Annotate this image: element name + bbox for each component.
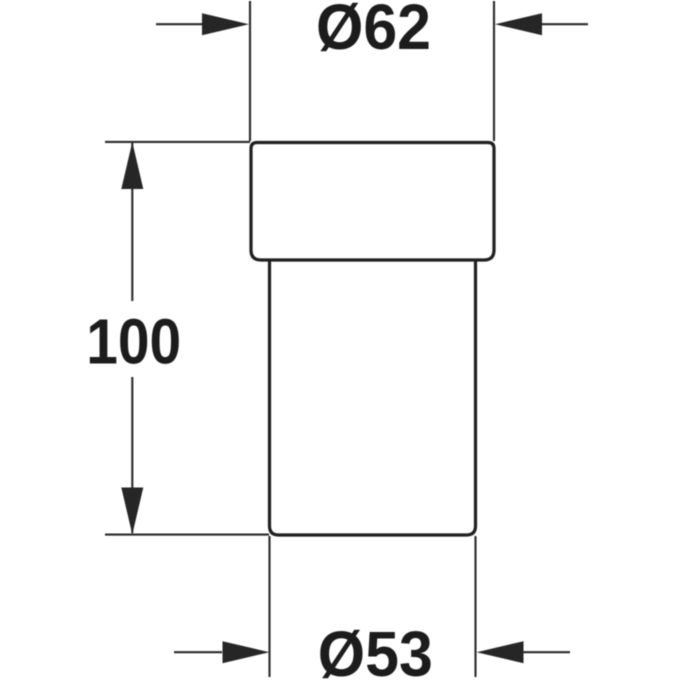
- svg-text:Ø62: Ø62: [316, 0, 431, 63]
- svg-text:Ø53: Ø53: [318, 618, 433, 680]
- svg-text:100: 100: [86, 306, 181, 378]
